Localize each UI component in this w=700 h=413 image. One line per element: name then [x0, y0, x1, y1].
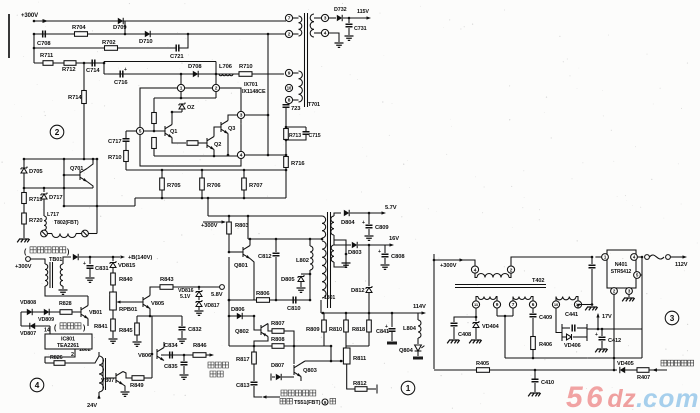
- wire R849 to V806 base: [144, 377, 152, 379]
- wire C809 bottom: [368, 229, 370, 235]
- label R849: [130, 383, 144, 389]
- svg-text:R406: R406: [539, 342, 552, 348]
- svg-text:RPB01: RPB01: [119, 307, 138, 313]
- ground (R720): [17, 239, 29, 242]
- wire R808 row: [229, 345, 331, 347]
- arrowhead pulse in: [262, 395, 267, 398]
- left border mark: [8, 14, 10, 58]
- label D709: [113, 25, 127, 31]
- label D708: [188, 64, 202, 70]
- junction: [23, 187, 26, 190]
- wire R719-R720: [23, 204, 25, 214]
- wire bias2 to rail: [153, 149, 155, 157]
- label R843: [160, 277, 174, 283]
- pin 3 of IX701: [237, 111, 244, 118]
- wire pin12 link: [582, 304, 592, 306]
- pin 12 of T402: [574, 301, 581, 308]
- label V807: [101, 378, 114, 384]
- wire VD404 gnd: [475, 328, 477, 339]
- label C813: [236, 383, 250, 389]
- label R812: [353, 381, 366, 387]
- svg-text:VD405: VD405: [617, 361, 634, 367]
- capacitor C715: [303, 132, 310, 135]
- resistor R702: [105, 46, 118, 51]
- wire rail A: [126, 169, 286, 171]
- junction: [228, 315, 231, 318]
- svg-text:R405: R405: [476, 361, 489, 367]
- junction: [153, 130, 156, 133]
- wire R720 to ground: [23, 224, 25, 238]
- section number 1: [401, 381, 415, 395]
- resistor R809: [322, 320, 327, 332]
- resistor R711: [43, 61, 53, 66]
- wire R706 bottom: [201, 190, 203, 198]
- section number 4: [30, 378, 44, 392]
- wire R818 top: [368, 313, 370, 320]
- junction: [33, 33, 36, 36]
- svg-text:3: 3: [240, 113, 243, 119]
- junction: [161, 197, 164, 200]
- svg-text:OZ: OZ: [187, 105, 195, 111]
- label R702: [102, 40, 115, 46]
- wire R811 bottom: [347, 364, 355, 389]
- winding T402 sec A: [478, 297, 496, 300]
- junction: [613, 369, 616, 372]
- wire rail2 drop: [63, 188, 65, 206]
- wire R706 top: [201, 170, 203, 178]
- wire D805 gnd: [300, 282, 302, 287]
- label C708: [37, 41, 51, 47]
- junction: [171, 111, 174, 114]
- junction: [601, 328, 604, 331]
- wire 17V stem: [597, 314, 599, 329]
- wire secA right: [496, 297, 497, 301]
- wire pin9 down: [496, 308, 498, 316]
- label R406: [539, 342, 552, 348]
- svg-text:D732: D732: [334, 7, 347, 13]
- svg-text:3: 3: [670, 314, 675, 323]
- wire 114V rail: [321, 312, 424, 314]
- pin 10 of T701: [285, 84, 292, 91]
- label VD406: [564, 343, 581, 349]
- wire D807 lead: [272, 376, 275, 378]
- pin 4 of IX701: [237, 151, 244, 158]
- label D705: [29, 169, 43, 175]
- wire C812 top: [275, 239, 277, 252]
- wire C731 bottom: [348, 28, 350, 35]
- section number 2: [50, 125, 64, 139]
- wire R826 row: [45, 362, 54, 364]
- junction: [213, 155, 216, 158]
- pin 9 of T402: [493, 301, 500, 308]
- winding T801 sec lower: [331, 245, 334, 262]
- resistor R828: [60, 310, 72, 315]
- svg-text:C721: C721: [170, 54, 184, 60]
- wire L804 to Q804: [417, 338, 419, 344]
- label R405: [476, 361, 489, 367]
- arrow pulse out: [210, 353, 215, 356]
- junction: [293, 345, 296, 348]
- junction: [63, 205, 66, 208]
- svg-text:VD404: VD404: [482, 324, 500, 330]
- wire TB01 sec top: [63, 257, 71, 264]
- wire pin4 right: [637, 256, 642, 258]
- label DZ: [187, 105, 195, 111]
- junction: [96, 158, 99, 161]
- wire pin2 down: [613, 294, 615, 370]
- svg-text:Q701: Q701: [70, 166, 83, 172]
- capacitor C716: [120, 71, 123, 78]
- wire Q802 base feed: [254, 316, 261, 330]
- wire R809 top: [323, 313, 325, 320]
- svg-text:24V: 24V: [87, 403, 97, 409]
- wire Q701 emitter: [87, 182, 93, 189]
- wire T802 top: [98, 352, 100, 356]
- svg-text:VD817: VD817: [204, 303, 220, 309]
- wire pin2 into IC: [215, 92, 217, 98]
- label C831: [95, 266, 109, 272]
- label C409: [539, 315, 552, 321]
- label xing ni cheng mai chong (in): [281, 390, 316, 396]
- label T402: [532, 278, 544, 284]
- wire T802 circle link: [76, 233, 82, 235]
- resistor R803: [227, 222, 232, 234]
- label (kai guan bian ya qi): [30, 247, 66, 253]
- svg-text:C716: C716: [114, 80, 128, 86]
- wire Q801 emitter: [250, 259, 254, 301]
- svg-text:+: +: [595, 332, 598, 338]
- junction: [228, 251, 231, 254]
- svg-text:R806: R806: [256, 291, 270, 297]
- capacitor C412: [599, 337, 606, 340]
- wire VD808-VD807 link: [20, 312, 22, 326]
- resistor (IC bias 2): [152, 138, 157, 149]
- label R807: [271, 321, 284, 327]
- wire IC left branch 2: [153, 124, 155, 132]
- svg-text:TB01: TB01: [49, 257, 62, 263]
- ground (C809): [365, 236, 374, 240]
- junction: [275, 238, 278, 241]
- svg-text:2: 2: [288, 32, 291, 38]
- diode VD807: [30, 323, 35, 329]
- svg-text:C714: C714: [86, 68, 100, 74]
- label R811: [353, 356, 367, 362]
- svg-text:D804: D804: [341, 220, 355, 226]
- wire IC bottom rail: [154, 155, 237, 157]
- wire T801 left-bottom drop: [320, 300, 322, 313]
- wire D804 out: [350, 212, 384, 214]
- label TEA2261: [57, 343, 79, 349]
- wire D705 column: [23, 159, 25, 192]
- ground (D805): [297, 288, 306, 292]
- wire V807 base: [106, 377, 117, 379]
- svg-text:C708: C708: [37, 41, 51, 47]
- wire rail2 ext: [64, 187, 93, 189]
- resistor R405: [477, 368, 490, 373]
- thyristor Q804: [415, 345, 425, 356]
- label T802(FBT): [54, 220, 79, 226]
- junction: [201, 169, 204, 172]
- winding T802 drive primary: [99, 356, 104, 392]
- resistor R849: [132, 376, 144, 381]
- capacitor C410: [532, 379, 539, 382]
- svg-text:Q2: Q2: [214, 142, 221, 148]
- resistor R843: [160, 285, 173, 290]
- label R826: [50, 355, 63, 361]
- wire winding to rail: [88, 233, 97, 235]
- capacitor C812: [273, 253, 280, 256]
- svg-text:R810: R810: [329, 327, 342, 333]
- capacitor C441: [572, 325, 575, 332]
- svg-text:T551(FBT): T551(FBT): [294, 400, 321, 406]
- junction: [201, 197, 204, 200]
- svg-text:56dz.com: 56dz.com: [566, 381, 699, 413]
- label VD807: [20, 331, 36, 337]
- junction: [33, 47, 36, 50]
- svg-text:1: 1: [180, 86, 183, 92]
- wire R846 out: [206, 354, 212, 356]
- svg-text:R828: R828: [59, 301, 72, 307]
- junction: [253, 315, 256, 318]
- svg-text:R846: R846: [193, 343, 207, 349]
- wire pin10 down: [556, 308, 562, 332]
- wire row2: [34, 33, 285, 35]
- flexible lead: [650, 255, 665, 259]
- wire R817 top: [253, 346, 255, 352]
- wire Q701 bottom rail: [64, 205, 135, 207]
- diode D710: [145, 31, 150, 37]
- pin 1 of IX701: [177, 84, 184, 91]
- winding TB01 secondary: [60, 264, 63, 286]
- wire 17V row: [587, 328, 642, 330]
- junction: [267, 154, 270, 157]
- label R841: [94, 324, 108, 330]
- diode D709: [118, 18, 123, 24]
- wire Q701 base: [64, 174, 80, 176]
- pin 6 of T402: [529, 301, 536, 308]
- junction: [433, 259, 436, 262]
- ground (C731): [345, 36, 354, 40]
- svg-text:9: 9: [496, 302, 499, 308]
- svg-text:D717: D717: [49, 195, 62, 201]
- wire Q1 emitter to R: [172, 138, 186, 144]
- plus mark C808: [378, 249, 381, 255]
- svg-text:C410: C410: [541, 380, 554, 386]
- resistor R845: [135, 323, 140, 335]
- svg-text:+: +: [83, 261, 86, 267]
- pin label 14: [44, 328, 50, 334]
- junction: [180, 73, 183, 76]
- svg-text:Q1: Q1: [170, 129, 177, 135]
- junction: [161, 169, 164, 172]
- svg-text:L804: L804: [403, 326, 417, 332]
- wire L717 to winding: [47, 233, 52, 235]
- wire to pin4: [472, 260, 475, 266]
- svg-text:R713: R713: [289, 133, 301, 139]
- label V805: [151, 301, 165, 307]
- svg-text:R707: R707: [249, 183, 262, 189]
- junction: [321, 238, 324, 241]
- label D717: [49, 195, 62, 201]
- wire R845 gnd: [136, 335, 138, 341]
- label R806: [256, 291, 270, 297]
- svg-text:C715: C715: [309, 133, 321, 139]
- ground (VD404): [469, 340, 481, 343]
- resistor R714: [82, 91, 87, 104]
- wire Q802 collector: [268, 324, 272, 332]
- svg-text:+B(140V): +B(140V): [128, 255, 152, 261]
- wire Q1 collector: [172, 112, 182, 125]
- label D806: [231, 307, 245, 313]
- winding T402 sec C: [556, 297, 576, 300]
- capacitor C810: [293, 297, 296, 304]
- label N401: [615, 262, 628, 268]
- wire lower rail 2: [24, 187, 93, 189]
- wire VD816-VD817: [198, 297, 200, 300]
- pin 1 of N401: [602, 254, 609, 261]
- wire R716 to rails: [285, 168, 287, 199]
- svg-text:D705: D705: [29, 169, 43, 175]
- label Q804: [399, 348, 414, 354]
- wire pin4 to winding: [475, 273, 477, 277]
- label T701: [308, 102, 320, 108]
- svg-text:14: 14: [44, 328, 50, 334]
- arrow 24V: [97, 394, 100, 399]
- label 5.7V: [385, 205, 397, 211]
- resistor R704: [75, 32, 88, 37]
- junction: [215, 73, 218, 76]
- wiper arrow RPB01: [118, 301, 143, 303]
- wire railB drop: [134, 198, 136, 206]
- pin 5 of N401: [634, 272, 641, 279]
- winding T701 feedback: [299, 71, 303, 102]
- svg-text:R720: R720: [29, 218, 42, 224]
- label R808: [271, 337, 285, 343]
- winding core circle T802: [82, 230, 89, 237]
- junction: [112, 256, 115, 259]
- wire to V806 base: [151, 316, 153, 378]
- label C809: [375, 225, 389, 231]
- wiper arrowhead: [116, 300, 120, 303]
- junction: [613, 357, 616, 360]
- wire pin3 gnd: [628, 294, 630, 297]
- label R710: [239, 64, 252, 70]
- transistor VB01: [81, 306, 88, 319]
- svg-text:1801: 1801: [324, 295, 335, 301]
- label 24V: [87, 403, 97, 409]
- wire Q803 collector row: [305, 360, 343, 362]
- svg-text:R849: R849: [130, 383, 144, 389]
- junction: [309, 238, 312, 241]
- wire rail B right: [198, 197, 286, 199]
- wire V806 emitter stub: [161, 354, 164, 356]
- svg-text:IX1148CE: IX1148CE: [242, 89, 266, 95]
- wire R407 out: [649, 369, 667, 371]
- wire to pin 1: [180, 74, 182, 84]
- resistor R706: [200, 178, 205, 190]
- wire Q701 right drop: [96, 159, 98, 234]
- pin 10 of T402: [552, 301, 559, 308]
- svg-text:+: +: [362, 220, 365, 226]
- wire from rail B: [207, 198, 209, 216]
- capacitor C841: [389, 329, 396, 332]
- svg-text:R710: R710: [239, 64, 252, 70]
- resistor R712: [64, 61, 76, 66]
- zener diode VD404: [473, 321, 479, 328]
- label R407: [637, 375, 650, 381]
- capacitor C723: [283, 105, 290, 108]
- wire C812 bottom: [275, 257, 277, 300]
- junction: [330, 360, 333, 363]
- wire pin4-pin5 rail: [641, 257, 643, 358]
- wire C835 top: [183, 355, 185, 361]
- svg-text:V805: V805: [151, 301, 165, 307]
- junction: [345, 253, 348, 256]
- label R817: [236, 357, 249, 363]
- wire V807 emitter: [123, 385, 125, 392]
- ground (R845): [133, 342, 142, 346]
- svg-text:VD808: VD808: [20, 300, 36, 306]
- label STR5412: [611, 269, 632, 275]
- wire pin4 to ground: [329, 33, 339, 42]
- label R818: [352, 327, 365, 333]
- wire C717 to R710: [125, 142, 127, 150]
- svg-text:7: 7: [512, 302, 515, 308]
- svg-text:C813: C813: [236, 383, 250, 389]
- junction: [285, 139, 288, 142]
- label C841: [376, 329, 389, 335]
- resistor R810: [344, 320, 349, 332]
- IC U1 IX701 box: [140, 88, 241, 166]
- pin 2 of IX701: [212, 84, 219, 91]
- IC N401 box: [607, 250, 636, 288]
- pin 4 of N401: [631, 254, 638, 261]
- plus mark C412: [595, 332, 598, 338]
- svg-text:VD807: VD807: [20, 331, 36, 337]
- label C410: [541, 380, 554, 386]
- wire row4 to pin 2: [215, 62, 217, 85]
- label Q1: [170, 129, 177, 135]
- wire row2 to pin4 rail: [267, 34, 269, 155]
- label C717: [108, 139, 121, 145]
- pin label 2: [71, 352, 74, 358]
- junction: [309, 273, 312, 276]
- wire lower-left rail: [24, 158, 97, 160]
- transistor Q1: [165, 125, 172, 138]
- junction: [149, 315, 152, 318]
- junction: [591, 303, 594, 306]
- diode VD809: [44, 309, 49, 315]
- resistor R846: [193, 353, 206, 358]
- wire C813 to pulse in: [254, 386, 262, 397]
- svg-text:4: 4: [35, 381, 40, 390]
- IC801 box: [45, 334, 92, 349]
- wire pin1 into IC: [180, 92, 182, 98]
- wire R810 to R811: [345, 332, 347, 348]
- wire Q802 emitter: [254, 337, 268, 347]
- label Q803: [303, 368, 318, 374]
- svg-text:C808: C808: [391, 254, 405, 260]
- junction: [267, 33, 270, 36]
- terminal +300V: [26, 257, 31, 262]
- wire R807 out: [284, 331, 294, 364]
- label Q701: [70, 166, 83, 172]
- wire pin5 to Q1 base: [144, 130, 165, 132]
- resistor (IC bias 1): [152, 113, 157, 124]
- wire to D732: [329, 17, 336, 19]
- ground (T801 secondary): [342, 263, 351, 267]
- label T551(FBT): [294, 400, 321, 406]
